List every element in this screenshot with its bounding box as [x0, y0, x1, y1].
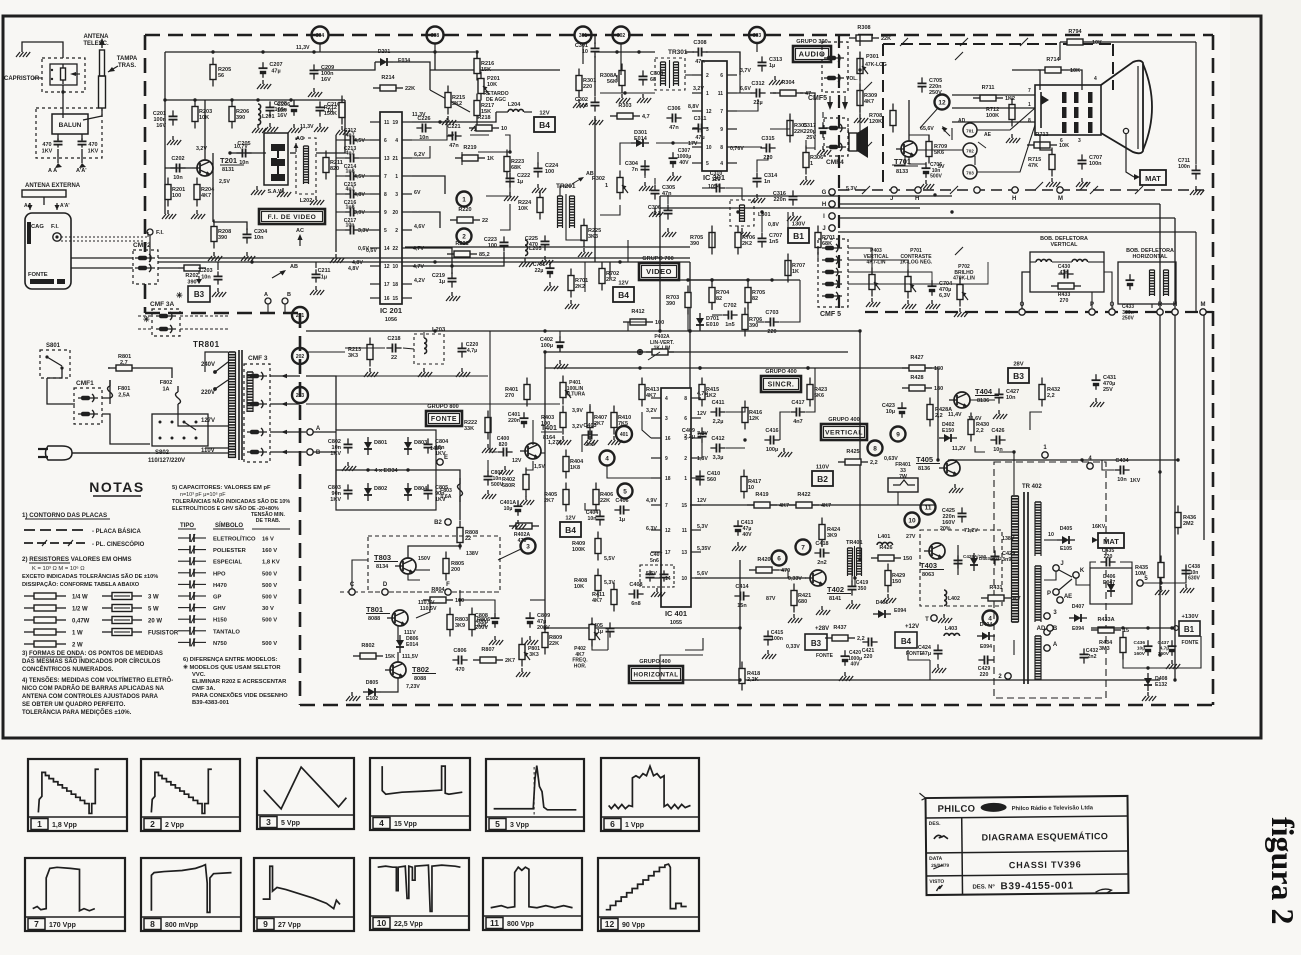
nota 2 resistores: [22, 556, 158, 588]
svg-text:D405: D405: [1060, 526, 1073, 532]
svg-text:10n: 10n: [254, 235, 264, 241]
svg-text:R425: R425: [846, 449, 859, 455]
capacitor C707: [758, 232, 783, 247]
voltage label: [952, 446, 966, 452]
resistor R709: [926, 135, 947, 164]
resistor R413: [639, 378, 659, 407]
svg-text:5,3V: 5,3V: [697, 524, 708, 530]
resistor R706: [735, 226, 755, 255]
svg-text:2) RESISTORES VALORES EM OHMS: 2) RESISTORES VALORES EM OHMS: [22, 556, 131, 563]
test point 308: [427, 27, 444, 44]
voltage label: [693, 86, 704, 92]
voltage label: [196, 146, 207, 152]
svg-text:C312: C312: [751, 81, 764, 87]
capacitor C211 1µ: [310, 262, 330, 295]
wire: [470, 134, 489, 136]
svg-text:2 W: 2 W: [72, 643, 83, 649]
test point 10: [905, 513, 920, 528]
svg-text:2K2: 2K2: [575, 284, 585, 290]
voltage label: [697, 571, 708, 577]
wire: [1101, 654, 1110, 656]
svg-text:47n: 47n: [662, 191, 672, 197]
resistor R429: [885, 564, 905, 593]
svg-text:11,3V: 11,3V: [296, 45, 310, 51]
svg-text:D802: D802: [374, 486, 387, 492]
svg-text:B39-4155-001: B39-4155-001: [1000, 881, 1074, 893]
svg-text:10µ: 10µ: [886, 409, 895, 415]
capacitor C423: [882, 402, 907, 418]
svg-text:120K: 120K: [869, 119, 882, 125]
ground: [1046, 178, 1060, 187]
svg-text:14: 14: [384, 246, 390, 252]
svg-text:L301: L301: [758, 212, 771, 218]
wire: [541, 452, 545, 454]
wire: [290, 152, 296, 154]
svg-text:240V: 240V: [201, 362, 215, 368]
wire: [851, 558, 853, 582]
svg-text:11: 11: [925, 504, 932, 511]
svg-text:C434: C434: [1115, 458, 1129, 464]
svg-text:12: 12: [384, 264, 390, 270]
svg-text:Philco Rádio e Televisão Ltda: Philco Rádio e Televisão Ltda: [1012, 805, 1094, 812]
svg-text:R303: R303: [618, 103, 631, 109]
svg-text:85,2: 85,2: [479, 252, 490, 258]
svg-text:BALUN: BALUN: [59, 122, 82, 129]
svg-text:AE: AE: [1064, 594, 1072, 600]
capacitor C223: [484, 236, 509, 251]
voltage label: [466, 551, 479, 557]
capacitor C809: [526, 612, 551, 631]
wire: [1161, 566, 1186, 583]
svg-text:470: 470: [529, 242, 538, 248]
transistor T201: [192, 156, 244, 176]
node circles A B fi: [264, 292, 291, 312]
wire: [952, 52, 963, 95]
svg-text:15K: 15K: [481, 67, 491, 73]
wire: [509, 145, 511, 152]
resistor R218: [469, 115, 507, 132]
svg-text:AB: AB: [586, 171, 594, 177]
wire: [434, 43, 436, 52]
wire: [685, 638, 703, 650]
wire: [498, 549, 521, 560]
ground: [524, 636, 538, 645]
capacitor C701 22µ: [533, 262, 555, 278]
waveform box 4 15 Vpp: [370, 758, 470, 830]
capacitor C406: [614, 498, 629, 523]
svg-text:T404: T404: [975, 387, 993, 396]
voltage label: [414, 278, 425, 284]
resistor R705: [690, 226, 715, 255]
capacitor C400 820: [497, 436, 513, 457]
svg-text:6: 6: [610, 819, 615, 829]
wire: [405, 246, 690, 248]
svg-text:3,2V: 3,2V: [196, 146, 207, 152]
svg-text:CHASSI TV396: CHASSI TV396: [1009, 859, 1082, 870]
wire: [609, 262, 611, 278]
svg-text:D201: D201: [378, 49, 391, 55]
wire: [629, 580, 631, 594]
wire: [859, 35, 861, 46]
wire: [584, 468, 586, 487]
node Q: [1109, 302, 1115, 315]
inductor L202: [296, 138, 324, 205]
svg-text:B: B: [287, 292, 291, 298]
ground: [489, 636, 503, 645]
svg-text:E014: E014: [634, 136, 648, 142]
svg-text:1 Vpp: 1 Vpp: [625, 822, 644, 829]
wire: [937, 520, 939, 538]
svg-text:1KV: 1KV: [42, 148, 53, 154]
svg-text:8134: 8134: [376, 564, 389, 570]
svg-text:J: J: [890, 196, 893, 202]
wire: [486, 177, 510, 196]
svg-text:1µ: 1µ: [769, 63, 775, 69]
capacitor C421 220: [862, 638, 878, 661]
capacitor C207 47µ: [259, 62, 283, 78]
svg-text:2K7: 2K7: [505, 658, 515, 664]
svg-text:150V: 150V: [418, 556, 431, 562]
svg-text:R: R: [1158, 302, 1163, 308]
svg-text:100µ: 100µ: [541, 343, 553, 349]
svg-text:4,7: 4,7: [1013, 596, 1021, 602]
svg-text:8088: 8088: [368, 616, 380, 622]
node F.I.: [147, 229, 164, 262]
capacitor symbol row H470: [178, 580, 277, 589]
wire: [737, 146, 762, 148]
wire: [559, 262, 561, 300]
svg-text:5,3V: 5,3V: [846, 186, 857, 192]
voltage label: [948, 412, 962, 418]
ground: [346, 692, 360, 701]
capacitor C418: [814, 541, 829, 566]
wire: [75, 430, 228, 460]
svg-text:12: 12: [938, 99, 946, 106]
svg-text:0,6V: 0,6V: [366, 248, 377, 254]
resistor R707: [785, 254, 805, 283]
wire dotted F.I. link: [61, 232, 148, 241]
wire: [764, 439, 780, 441]
diode D301: [631, 130, 649, 147]
svg-text:IC 401: IC 401: [665, 609, 687, 618]
contraste pot P701: [900, 248, 933, 299]
svg-text:22: 22: [392, 246, 398, 252]
capacitor C220 4,7µ: [458, 342, 479, 358]
antena externa label: [25, 183, 81, 189]
wire: [513, 451, 524, 453]
diode D406 box: [1090, 568, 1132, 604]
wire: [817, 212, 819, 232]
ground: [608, 436, 622, 445]
svg-text:H150: H150: [213, 618, 227, 624]
bob defletora vertical label: [1040, 236, 1088, 248]
wire: [436, 470, 460, 520]
waveform box 11 800 Vpp: [483, 858, 582, 930]
fuse F803: [440, 478, 462, 502]
voltage label: [512, 458, 522, 464]
svg-text:TANTALO: TANTALO: [213, 629, 240, 635]
wire: [908, 100, 910, 141]
slash marks on dashed outline: [864, 38, 1028, 150]
svg-text:3 Vpp: 3 Vpp: [510, 822, 529, 829]
svg-text:47n: 47n: [1060, 270, 1069, 276]
svg-text:PARA CONEXÕES VIDE DESENHO: PARA CONEXÕES VIDE DESENHO: [192, 692, 288, 699]
svg-text:800 Vpp: 800 Vpp: [507, 921, 534, 928]
diode D201: [375, 49, 410, 66]
svg-text:16KV: 16KV: [1092, 524, 1106, 530]
wire: [701, 368, 703, 400]
ground: [544, 282, 558, 291]
resistor R213: [348, 338, 373, 367]
node AD: [1037, 625, 1054, 632]
voltage label: [420, 606, 437, 612]
svg-text:3,2V: 3,2V: [646, 408, 657, 414]
wire: [1148, 636, 1201, 668]
transformer TR801 label: [193, 340, 220, 349]
voltage label: [920, 126, 934, 132]
svg-text:250V: 250V: [1122, 316, 1134, 322]
svg-text:FUSISTOR: FUSISTOR: [148, 631, 179, 637]
waveform box 3 5 Vpp: [257, 758, 354, 829]
wire: [478, 150, 512, 153]
svg-text:7: 7: [665, 503, 668, 509]
resistor R708: [869, 104, 896, 133]
+130V B1 fonte box: [1174, 614, 1200, 646]
capristor element: [50, 64, 80, 85]
svg-text:E150: E150: [942, 428, 954, 434]
wire: [817, 586, 819, 602]
resistor R432: [1039, 378, 1060, 407]
svg-text:390: 390: [749, 323, 758, 329]
svg-text:T803: T803: [374, 553, 391, 562]
svg-text:0,63V: 0,63V: [884, 456, 898, 462]
grupo 400 horizontal label: [629, 659, 683, 683]
svg-text:ELETROLÍTICOS E GHV SÃO DE -20: ELETROLÍTICOS E GHV SÃO DE -20+80%: [172, 504, 279, 512]
svg-text:1KV: 1KV: [88, 148, 99, 154]
fuse F801 2,5A: [108, 380, 131, 404]
svg-text:0,33V: 0,33V: [788, 576, 802, 582]
capacitor C307 1000µ 40V: [669, 148, 692, 168]
wire: [948, 459, 1178, 461]
svg-text:2 Vpp: 2 Vpp: [165, 822, 184, 829]
svg-text:3K3: 3K3: [588, 234, 598, 240]
svg-text:11: 11: [682, 528, 688, 534]
capacitor C212: [336, 128, 370, 145]
wire: [1011, 155, 1013, 160]
balun: [52, 114, 88, 140]
capacitor C313: [758, 56, 783, 71]
svg-text:202: 202: [296, 354, 305, 360]
resistor R211: [323, 151, 343, 180]
svg-text:VISTO: VISTO: [929, 879, 944, 885]
wire: [848, 272, 932, 281]
resistor R225: [581, 219, 601, 248]
resistor R415: [699, 378, 719, 407]
node B2: [434, 519, 451, 526]
svg-text:R428: R428: [910, 375, 923, 381]
svg-text:10K: 10K: [1070, 68, 1080, 74]
wire: [1044, 571, 1056, 580]
wire: [416, 600, 430, 618]
IC U201 IC201: [370, 112, 412, 323]
ground: [938, 614, 952, 623]
svg-text:4,8V: 4,8V: [348, 266, 359, 272]
svg-text:8164: 8164: [543, 435, 556, 441]
resistor R219: [455, 145, 494, 162]
svg-text:3: 3: [266, 817, 271, 827]
wire: [475, 660, 477, 668]
wire: [165, 98, 345, 101]
wire: [335, 135, 337, 252]
models star symbol: [176, 291, 183, 300]
resistor R301: [576, 69, 596, 98]
svg-text:47µ: 47µ: [695, 135, 704, 141]
svg-text:T401: T401: [541, 425, 557, 432]
svg-text:A'A': A'A': [76, 168, 87, 174]
svg-text:11,4V: 11,4V: [948, 412, 962, 418]
svg-text:180: 180: [934, 386, 943, 392]
svg-text:C702: C702: [723, 303, 736, 309]
ground: [442, 116, 456, 125]
voltage label: [646, 571, 657, 577]
wire: [44, 342, 75, 404]
svg-text:1: 1: [37, 819, 42, 829]
svg-text:4) TENSÕES: MEDIDAS COM VOLTÍM: 4) TENSÕES: MEDIDAS COM VOLTÍMETRO ELETR…: [22, 676, 173, 684]
svg-text:7: 7: [34, 919, 39, 929]
+28V B3 fonte box: [805, 626, 834, 659]
retardo de AGC label: [483, 91, 508, 103]
wire: [1059, 42, 1061, 60]
wire: [702, 187, 710, 189]
balun dashed box: [36, 108, 102, 158]
test point 9: [891, 427, 906, 442]
wire: [613, 404, 615, 412]
wire: [1044, 539, 1057, 541]
svg-text:C436: C436: [1134, 640, 1146, 646]
wire: [1090, 562, 1096, 568]
test point 203: [292, 387, 308, 403]
svg-text:S801: S801: [46, 343, 61, 349]
wire arrow to B3: [196, 268, 206, 284]
svg-text:C207: C207: [269, 62, 282, 68]
svg-text:7: 7: [384, 174, 387, 180]
wire: [920, 108, 938, 128]
svg-text:DES. Nº: DES. Nº: [972, 884, 995, 890]
wire: [611, 503, 613, 510]
node 5: [1137, 576, 1149, 586]
wire: [1014, 654, 1032, 656]
wire: [459, 590, 461, 606]
wire: [476, 142, 478, 160]
diode D802: [364, 483, 387, 501]
svg-text:F.I. DE VIDEO: F.I. DE VIDEO: [268, 214, 317, 221]
svg-text:6V: 6V: [414, 190, 421, 196]
svg-text:2,2: 2,2: [870, 460, 878, 466]
svg-text:11,2V: 11,2V: [952, 446, 966, 452]
transistor T402: [805, 570, 851, 602]
svg-text:4K7: 4K7: [201, 193, 211, 199]
svg-text:1 W: 1 W: [72, 631, 83, 637]
svg-text:302: 302: [617, 33, 626, 39]
wire: [1012, 70, 1040, 90]
svg-text:VERTICAL: VERTICAL: [1051, 242, 1079, 248]
ground: [336, 126, 350, 135]
MAT box flyback: [1092, 533, 1124, 548]
waveform box 2 2 Vpp: [141, 759, 240, 831]
ground: [418, 368, 432, 377]
wire: [806, 368, 815, 412]
wire: [1111, 604, 1113, 612]
svg-text:2: 2: [462, 233, 466, 240]
svg-text:1µ: 1µ: [517, 179, 523, 185]
svg-text:6,6V: 6,6V: [740, 86, 751, 92]
wire: [545, 627, 740, 629]
svg-text:5,35V: 5,35V: [697, 546, 711, 552]
svg-text:C426: C426: [991, 428, 1004, 434]
svg-text:11: 11: [384, 120, 390, 126]
wire: [313, 452, 336, 492]
svg-text:R431: R431: [989, 585, 1002, 591]
wire: [838, 217, 1175, 219]
svg-text:40V: 40V: [742, 532, 752, 538]
svg-text:5n6: 5n6: [650, 558, 659, 564]
svg-text:10K: 10K: [1059, 143, 1069, 149]
nota 3 formas de onda: [22, 651, 163, 673]
voltage label: [604, 580, 615, 586]
svg-text:680: 680: [798, 599, 807, 605]
svg-text:ALTURA: ALTURA: [565, 392, 586, 398]
svg-text:100µ: 100µ: [766, 447, 778, 453]
svg-text:138V: 138V: [1002, 536, 1015, 542]
ground: [288, 124, 302, 133]
node E: [437, 455, 448, 465]
capacitor type table header: [178, 511, 290, 529]
ground: [778, 448, 792, 457]
svg-text:2n2: 2n2: [585, 442, 594, 448]
capacitor C436: [1134, 640, 1153, 657]
ground: [16, 48, 30, 57]
diode D401: [873, 600, 906, 618]
svg-text:1n5: 1n5: [725, 322, 734, 328]
svg-text:L203: L203: [432, 327, 446, 333]
svg-text:4: 4: [1094, 76, 1097, 82]
capacitor C401 220n: [508, 412, 529, 428]
svg-text:6: 6: [684, 416, 687, 422]
svg-text:71,2V: 71,2V: [964, 528, 978, 534]
wire: [72, 452, 228, 454]
svg-text:4: 4: [665, 396, 668, 402]
outer border frame: [3, 16, 1261, 738]
resistor R794: [1060, 29, 1102, 46]
wire: [1105, 662, 1125, 670]
transistor T701: [894, 141, 918, 175]
svg-text:B2: B2: [434, 520, 442, 526]
svg-text:TRAS.: TRAS.: [118, 63, 136, 69]
svg-text:1056: 1056: [385, 317, 397, 323]
svg-text:4: 4: [720, 161, 723, 167]
svg-text:E014: E014: [406, 642, 418, 648]
wire: [594, 35, 596, 44]
capacitor C225: [525, 235, 550, 250]
voltage label: [358, 246, 369, 252]
svg-text:TELESC.: TELESC.: [83, 41, 109, 47]
svg-text:68K: 68K: [511, 165, 521, 171]
ground: [539, 256, 553, 265]
svg-text:120: 120: [712, 177, 721, 183]
wire: [699, 368, 701, 392]
inductor L205: [525, 240, 542, 256]
wire: [737, 92, 752, 94]
